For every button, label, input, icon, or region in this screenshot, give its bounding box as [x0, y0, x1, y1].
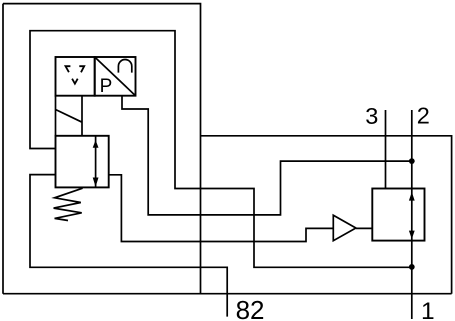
svg-text:2: 2 [417, 103, 430, 129]
svg-text:82: 82 [236, 295, 265, 321]
svg-text:3: 3 [365, 103, 378, 129]
svg-text:P: P [100, 76, 113, 97]
svg-text:1: 1 [421, 298, 435, 321]
